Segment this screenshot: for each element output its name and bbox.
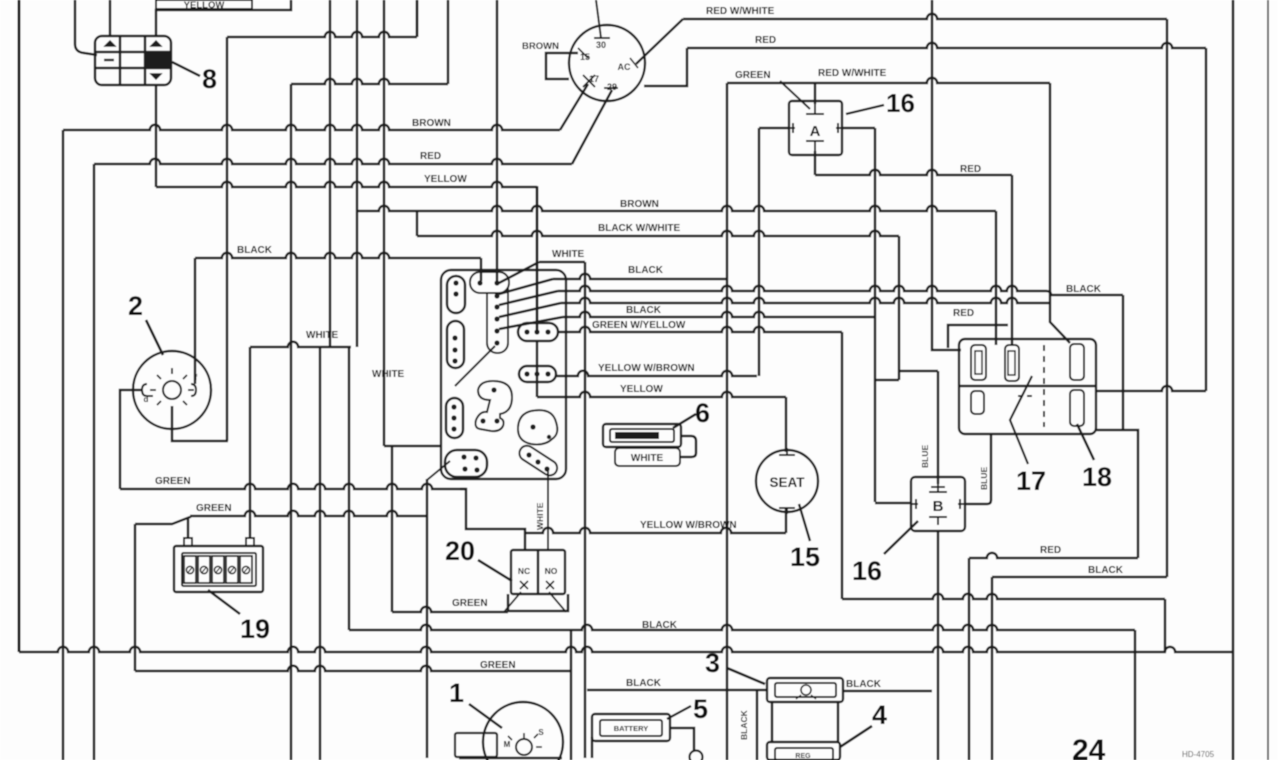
svg-text:HD-4705: HD-4705 <box>1182 750 1215 759</box>
wire red loop block <box>948 325 1008 348</box>
svg-text:RED: RED <box>960 164 981 175</box>
label 3 leader <box>727 668 765 684</box>
block slots lower <box>971 391 984 414</box>
svg-text:2: 2 <box>128 291 143 321</box>
wire block right pin <box>1096 386 1206 391</box>
connector slot 9shape <box>476 381 513 431</box>
svg-text:RED: RED <box>420 151 441 162</box>
wire black w/white rail <box>416 211 419 236</box>
svg-text:16: 16 <box>886 88 915 118</box>
connector slot 2x2 oval <box>445 450 487 477</box>
seat switch <box>756 450 818 512</box>
module 8 <box>95 36 171 85</box>
relay B bottom wire <box>937 531 940 760</box>
relay block 17 18 <box>959 339 1096 434</box>
relay A pins <box>806 104 824 114</box>
wire vertical 94 <box>93 164 96 760</box>
wire solenoid left rail <box>587 689 767 692</box>
wire yellow jumper to module 8 <box>156 0 291 37</box>
wire red w/white relay <box>727 78 1050 83</box>
svg-text:REG: REG <box>795 753 811 760</box>
component 6 loop <box>680 436 696 457</box>
wire brown upper rail <box>357 206 996 211</box>
wire rail 599 <box>842 594 1165 599</box>
svg-text:3: 3 <box>705 648 720 678</box>
label 16 lower leader <box>884 521 918 554</box>
svg-text:YELLOW: YELLOW <box>620 384 663 395</box>
relay B box <box>911 477 965 531</box>
wire vertical 932 <box>932 0 961 350</box>
wire W2 <box>291 79 448 84</box>
svg-text:YELLOW W/BROWN: YELLOW W/BROWN <box>598 363 695 374</box>
svg-text:24: 24 <box>1072 734 1106 760</box>
svg-text:S: S <box>538 728 544 737</box>
wire pinAC diagonal <box>636 19 683 64</box>
connector block outline <box>441 270 566 479</box>
svg-text:BLACK: BLACK <box>846 679 882 690</box>
svg-text:WHITE: WHITE <box>535 502 545 530</box>
svg-text:30: 30 <box>596 40 606 50</box>
svg-text:GREEN: GREEN <box>196 503 232 514</box>
wire yellow rail <box>156 182 537 187</box>
wire white fan <box>497 262 539 284</box>
block dashed divider <box>1043 345 1045 427</box>
label 15 leader <box>799 504 810 541</box>
wire vertical 875 <box>874 128 877 502</box>
battery wires <box>670 728 694 751</box>
svg-text:YELLOW: YELLOW <box>424 174 467 185</box>
svg-text:18: 18 <box>1082 462 1112 492</box>
wires 3 to 4 <box>771 702 774 742</box>
engine bottom wire <box>459 757 562 759</box>
svg-text:BLACK: BLACK <box>626 678 662 689</box>
hour meter left wire <box>120 390 142 489</box>
connector T slot <box>487 274 508 353</box>
svg-text:GREEN: GREEN <box>480 660 516 671</box>
wire solenoid left down <box>756 690 759 760</box>
svg-text:15: 15 <box>790 542 820 572</box>
svg-text:NC: NC <box>518 566 530 576</box>
svg-text:A: A <box>810 123 821 140</box>
label 8 leader <box>172 62 200 76</box>
wire solenoid right <box>843 690 932 693</box>
wire vertical 330 <box>329 0 332 347</box>
wire from module 8 bottom <box>155 85 158 187</box>
connector slot tilted oval <box>517 443 560 478</box>
wire yellow w brown left <box>525 528 786 533</box>
engine lamp <box>516 739 532 755</box>
wire green w yellow <box>558 327 842 332</box>
svg-text:RED: RED <box>953 308 974 319</box>
label 18 leader <box>1077 424 1094 460</box>
yellow label box top <box>156 0 252 9</box>
wire red block bottom <box>968 558 971 760</box>
wire green engine rail <box>392 607 508 612</box>
hour meter circle <box>133 351 211 429</box>
relay A box <box>789 101 842 155</box>
wire W1 <box>227 32 417 37</box>
wire black block bottom <box>991 577 994 760</box>
label green leader <box>780 81 810 109</box>
svg-text:BROWN: BROWN <box>620 199 659 210</box>
svg-text:NO: NO <box>545 566 558 576</box>
label 17 leader <box>1010 376 1032 464</box>
svg-text:B: B <box>933 498 944 515</box>
svg-text:BLACK: BLACK <box>1066 284 1102 295</box>
svg-text:4: 4 <box>872 700 887 730</box>
border right outer <box>1267 0 1269 760</box>
wire red right of keyswitch <box>644 48 687 86</box>
svg-text:1: 1 <box>449 678 464 708</box>
relay A bottom wire <box>814 151 817 175</box>
wire vertical 427 <box>426 479 429 758</box>
switch 20 bottom hook <box>508 594 568 611</box>
svg-text:BLACK: BLACK <box>1088 565 1124 576</box>
svg-text:BLUE: BLUE <box>979 467 989 490</box>
wire yellow w brown right <box>556 371 757 376</box>
wire green2 rail <box>135 516 190 524</box>
svg-text:WHITE: WHITE <box>372 369 405 380</box>
wire red top <box>687 43 1206 48</box>
label 20 leader <box>478 560 512 581</box>
wire vertical 497 top <box>496 0 499 281</box>
connector diag internal <box>455 346 495 386</box>
wire yellow to seat <box>537 392 786 397</box>
connector right oval B <box>519 366 556 382</box>
label 6 leader <box>673 414 696 428</box>
connector slot oval1 <box>447 276 465 313</box>
relay B top wire <box>937 371 940 484</box>
svg-text:BLACK: BLACK <box>739 709 749 740</box>
block slots upper <box>971 345 986 380</box>
wire vertical 357 <box>356 0 359 347</box>
svg-text:BLACK: BLACK <box>237 245 273 256</box>
svg-text:f: f <box>195 373 198 382</box>
wire black bottom rail <box>18 0 21 652</box>
svg-text:d: d <box>144 395 149 404</box>
hour meter pins <box>142 384 153 396</box>
svg-text:6: 6 <box>695 398 710 428</box>
connector slot oval2 <box>447 321 464 368</box>
svg-text:WHITE: WHITE <box>631 453 664 464</box>
label 2 leader <box>146 320 163 355</box>
switch 20 box <box>511 550 565 594</box>
svg-text:GREEN: GREEN <box>155 476 191 487</box>
key switch <box>569 25 645 101</box>
svg-text:8: 8 <box>202 64 217 94</box>
svg-text:17: 17 <box>1016 466 1046 496</box>
wire green rail <box>120 484 466 489</box>
svg-text:BATTERY: BATTERY <box>614 724 649 733</box>
svg-text:BLACK W/WHITE: BLACK W/WHITE <box>598 223 681 234</box>
wire fan4 <box>499 303 561 317</box>
wire red w/white top <box>683 14 1167 19</box>
wire vertical 291 <box>290 84 293 760</box>
component 4 <box>767 742 840 760</box>
hour meter lamp <box>163 381 181 399</box>
svg-text:M: M <box>504 740 511 749</box>
svg-text:RED W/WHITE: RED W/WHITE <box>818 68 887 79</box>
connector slot blob <box>518 410 557 444</box>
relay A top wire <box>814 83 817 104</box>
svg-text:RED W/WHITE: RED W/WHITE <box>706 6 775 17</box>
wire vertical 392 <box>391 446 394 612</box>
svg-text:GREEN W/YELLOW: GREEN W/YELLOW <box>592 320 686 331</box>
wire vertical 227 <box>226 37 229 441</box>
svg-text:GREEN: GREEN <box>452 598 488 609</box>
wire brown rail <box>63 125 560 130</box>
svg-text:BLACK: BLACK <box>628 265 664 276</box>
svg-text:WHITE: WHITE <box>306 330 339 341</box>
svg-text:19: 19 <box>240 614 270 644</box>
hour meter bottom wire <box>172 406 228 441</box>
svg-text:BLACK: BLACK <box>626 305 662 316</box>
wire jog 875 <box>875 379 899 382</box>
svg-text:BROWN: BROWN <box>522 41 559 52</box>
fuse 19 pin wires <box>187 517 190 538</box>
switch 20 contacts <box>520 581 528 589</box>
svg-text:BROWN: BROWN <box>412 118 451 129</box>
wire vertical 417b <box>416 0 419 37</box>
engine circle <box>483 702 563 760</box>
brown loop at pin 15 <box>546 53 578 79</box>
component 6 box <box>603 424 681 447</box>
solenoid 3 <box>767 678 843 702</box>
wire vertical 135 <box>134 524 137 671</box>
label 5 leader <box>667 706 691 719</box>
seat pins <box>779 448 795 455</box>
relay A right wire <box>842 127 875 130</box>
fuse block 19 <box>174 546 263 592</box>
svg-text:BLUE: BLUE <box>920 445 930 468</box>
switch 20 diagonals <box>504 592 521 612</box>
connector slot oval3 <box>446 398 463 438</box>
relay B right wire <box>965 434 991 504</box>
battery 5 <box>592 714 670 741</box>
engine side box <box>455 733 497 757</box>
svg-text:15: 15 <box>580 52 590 62</box>
svg-text:YELLOW: YELLOW <box>184 0 225 11</box>
wire green hook <box>460 489 525 550</box>
label white comp6 <box>615 448 680 466</box>
svg-text:SEAT: SEAT <box>769 475 805 490</box>
relay B left wire <box>875 502 911 505</box>
connector right oval A <box>518 323 558 341</box>
wire fan5 <box>499 317 563 329</box>
relay A left wire <box>759 127 789 130</box>
wire vertical 727 <box>726 83 729 760</box>
wire black left rail <box>195 253 481 258</box>
svg-text:RED: RED <box>755 35 776 46</box>
label 19 leader <box>208 590 240 614</box>
svg-text:16: 16 <box>852 556 882 586</box>
label 1 leader <box>469 704 502 728</box>
svg-text:GREEN: GREEN <box>735 70 771 81</box>
wire fan3 black <box>499 291 558 305</box>
wire bottom mid rail <box>349 625 1135 630</box>
wire vertical 537 into block <box>536 186 539 330</box>
relay B pins <box>929 484 947 492</box>
svg-text:AC: AC <box>618 62 631 72</box>
svg-text:5: 5 <box>693 694 708 724</box>
svg-text:20: 20 <box>445 536 475 566</box>
border right <box>1232 0 1235 760</box>
svg-text:WHITE: WHITE <box>552 249 585 260</box>
switch 20 top pins <box>524 534 526 550</box>
wire pin17 diagonal <box>560 84 588 130</box>
label 4 leader <box>840 726 872 747</box>
wire pin29 diagonal <box>572 90 612 164</box>
svg-text:RED: RED <box>1040 545 1061 556</box>
wire vertical 63 <box>62 130 65 760</box>
wire red rail <box>94 159 572 164</box>
wire white left rail <box>250 342 351 347</box>
svg-text:YELLOW W/BROWN: YELLOW W/BROWN <box>640 520 737 531</box>
wire black fan <box>499 279 553 294</box>
label 16 leader <box>846 105 884 114</box>
